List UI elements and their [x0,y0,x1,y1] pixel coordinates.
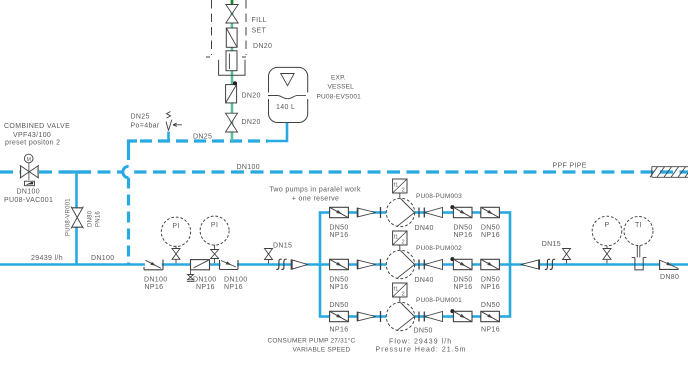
svg-text:DN25: DN25 [131,114,150,121]
svg-text:Two pumps in paralel work: Two pumps in paralel work [269,187,361,194]
svg-text:29439 l/h: 29439 l/h [31,255,63,262]
flange pump suction (PU08-PUM003) [380,207,382,218]
svg-text:DN50: DN50 [481,277,500,284]
wire DN25 vertical dashed upper [127,149,130,167]
svg-text:DN15: DN15 [542,241,561,248]
svg-text:NP16: NP16 [454,232,473,239]
wire safety valve stub [167,132,170,142]
svg-text:TI: TI [635,222,642,229]
valve DN50 NP16 discharge A (PU08-PUM002) [453,259,472,269]
svg-text:FILL: FILL [252,17,267,24]
thermowell [632,246,647,270]
svg-text:DN50: DN50 [453,225,472,232]
svg-text:NP16: NP16 [196,284,215,291]
svg-text:VESSEL: VESSEL [328,84,355,91]
svg-text:DN100: DN100 [193,277,217,284]
frequency converter box (PU08-PUM002) [393,231,407,250]
svg-text:PPF PIPE: PPF PIPE [553,163,587,170]
wire main suction/discharge line DN100 [0,263,688,266]
svg-text:DN100: DN100 [17,189,41,196]
flange pump discharge (PU08-PUM001) [418,312,420,322]
svg-text:NP16: NP16 [330,327,349,334]
svg-text:DN50: DN50 [481,225,500,232]
valve strainer drain [188,275,194,280]
svg-text:DN100: DN100 [224,277,248,284]
valve DN50 NP16 discharge A (PU08-PUM001) [453,311,472,321]
valve DN15 vent (right) [566,260,568,264]
svg-text:DN50: DN50 [329,277,348,284]
labels main line valves [144,241,679,291]
valve fill-set isolation X [226,5,238,24]
reducer cone (discharge manifold) [521,259,539,269]
reducer cone (suction manifold) [291,259,307,269]
node junction dot (PU08-PUM001) [450,309,454,313]
wire DN100 header dashed right part [134,170,688,173]
flexible connector (discharge) [545,259,555,269]
svg-text:EXP.: EXP. [331,75,346,82]
svg-text:+ one reserve: + one reserve [292,196,340,203]
valve DN50 NP16 discharge B (PU08-PUM001) [481,311,500,321]
svg-text:DN40: DN40 [415,277,434,284]
frequency converter box (PU08-PUM001) [393,283,407,302]
valve P gauge isolation [603,249,611,260]
svg-text:DN20: DN20 [253,43,272,50]
wire DN100 header solid tee piece [60,170,91,173]
pump PU08-PUM001 [386,302,414,330]
svg-text:PU08-VAC001: PU08-VAC001 [4,197,53,204]
svg-text:DN25: DN25 [193,134,212,141]
valve PU08-VAC001 combined valve body [20,165,39,178]
svg-text:preset positon 2: preset positon 2 [5,140,60,147]
svg-text:COMBINED VALVE: COMBINED VALVE [4,123,70,130]
valve DN15 X left [265,249,273,260]
valve DN20 shut-off X [226,113,238,132]
wire DN100 header dashed left part [0,170,124,173]
actuator M motor [24,154,33,180]
check valve (PU08-PUM001) [424,312,442,322]
svg-text:PU08-EVS001: PU08-EVS001 [317,94,362,101]
wire DN25 elbow corner [129,141,138,149]
valve DN50 NP16 suction (PU08-PUM002) [330,259,349,269]
fill set dashed enclosure [212,0,247,55]
svg-text:DN20: DN20 [242,119,261,126]
node pipe crossing jump [123,166,135,178]
filter fill-set [226,28,237,47]
svg-text:Flow: 29439 l/h: Flow: 29439 l/h [389,338,452,345]
svg-text:DN50: DN50 [329,302,348,309]
svg-text:PU08-PUM001: PU08-PUM001 [416,297,462,304]
valve DN50 NP16 discharge A (PU08-PUM003) [453,207,472,217]
expansion vessel PU08-EVS001 [266,67,310,122]
strainer DN100 [191,260,210,275]
labels pump header note [269,187,361,203]
svg-text:P: P [604,222,609,229]
valve DN15 vent (left) [268,260,270,264]
svg-text:NP16: NP16 [481,232,500,239]
valve PI gauge 2 isolation [211,250,219,259]
svg-text:NP16: NP16 [330,232,349,239]
valve DN100 NP16 butterfly (right of strainer) [220,260,239,270]
gauge PI stem valve [175,246,177,249]
svg-text:VPF43/100: VPF43/100 [13,132,51,139]
positioner box [25,181,35,186]
pump PU08-PUM002 [386,250,414,278]
gauge P stem valve [606,246,608,249]
svg-text:DN20: DN20 [242,93,261,100]
valve DN100 NP16 butterfly (left) [144,260,163,270]
svg-text:f1: f1 [394,286,399,292]
svg-text:M: M [26,157,31,163]
gauge PI (pump suction 1) [161,217,190,246]
svg-text:NP16: NP16 [454,284,473,291]
reducer DN80 eccentric [660,260,679,269]
svg-text:Pressure Head: 21.5m: Pressure Head: 21.5m [376,346,467,353]
wire fill line inlet (dark green) [231,0,234,8]
svg-text:SET: SET [252,28,267,35]
svg-text:PU08-PUM002: PU08-PUM002 [416,245,462,252]
node junction dot (PU08-PUM002) [450,257,454,261]
labels left block [4,123,115,262]
svg-text:140 L: 140 L [276,104,295,111]
labels expansion vessel [276,75,361,112]
water meter [219,51,245,75]
gauge P discharge [592,216,622,246]
gauge PI (pump suction 2) [200,216,229,245]
valve DN50 NP16 discharge B (PU08-PUM002) [481,259,500,269]
svg-text:DN50: DN50 [329,225,348,232]
svg-text:DN100: DN100 [144,277,168,284]
labels pump row 1 [329,193,500,239]
svg-text:f1: f1 [394,182,399,188]
svg-text:NP16: NP16 [481,327,500,334]
check valve (PU08-PUM003) [424,208,442,218]
flange pump discharge (PU08-PUM003) [418,208,420,218]
pump PU08-PUM003 [386,198,414,226]
svg-text:DN50: DN50 [414,328,433,335]
svg-text:DN15: DN15 [273,243,292,250]
svg-text:PN16: PN16 [96,211,102,227]
labels DN25 safety [131,114,213,141]
flexible connector (suction) [276,259,286,269]
flange pump suction (PU08-PUM001) [380,311,382,322]
valve DN50 NP16 suction (PU08-PUM001) [330,311,349,321]
svg-text:2: 2 [402,240,405,246]
flange pump discharge (PU08-PUM002) [418,260,420,270]
svg-text:DN80: DN80 [660,274,679,281]
svg-text:VARIABLE SPEED: VARIABLE SPEED [293,346,351,353]
wire DN25 dashed line [140,139,268,142]
labels fill set [242,17,273,126]
reducer cone suction (PU08-PUM002) [357,260,375,270]
safety valve DN25 Po=4bar [166,112,182,131]
svg-text:DN100: DN100 [91,255,115,262]
svg-text:NP16: NP16 [145,284,164,291]
gauge TI thermometer [624,217,653,246]
svg-text:DN50: DN50 [481,302,500,309]
svg-text:DN100: DN100 [237,164,261,171]
check valve (PU08-PUM002) [424,260,442,270]
svg-text:DN80: DN80 [88,210,94,227]
svg-text:Po=4bar: Po=4bar [131,123,160,130]
svg-text:NP16: NP16 [481,284,500,291]
reducer cone suction (PU08-PUM001) [357,312,375,322]
svg-text:2: 2 [402,292,405,298]
frequency converter box (PU08-PUM003) [393,179,407,198]
labels VR001 rotated [66,198,102,236]
wire fill water line [231,0,234,141]
svg-text:DN40: DN40 [415,225,434,232]
svg-text:CONSUMER PUMP 27/31°C: CONSUMER PUMP 27/31°C [268,336,356,344]
wire pump manifold loop (collectors and rows 1,3) [320,213,510,317]
labels bottom [268,336,467,353]
valve DN15 X right [563,249,571,260]
wire vertical drop VR001 branch [75,172,78,265]
svg-text:PI: PI [172,223,179,230]
svg-text:f1: f1 [394,234,399,240]
reducer cone suction (PU08-PUM003) [357,208,375,218]
valve PU08-VR001 [71,207,83,229]
svg-text:PU08-VR001: PU08-VR001 [66,198,72,236]
labels pump row 3 [329,297,500,335]
flange pump suction (PU08-PUM002) [380,259,382,270]
valve DN50 NP16 suction (PU08-PUM003) [330,207,349,217]
valve PI gauge isolation [172,249,180,260]
labels pump row 2 [329,245,500,291]
svg-text:PU08-PUM003: PU08-PUM003 [416,193,462,200]
wall sleeve (hatched) [650,167,688,178]
svg-text:DN50: DN50 [453,277,472,284]
svg-text:NP16: NP16 [330,284,349,291]
wire expansion vessel connection [268,122,287,142]
wire DN25 vertical dashed lower [127,178,130,265]
gauge PI 2 stem valve [214,245,216,250]
valve DN50 NP16 discharge B (PU08-PUM003) [481,207,500,217]
node junction dot (PU08-PUM003) [450,205,454,209]
svg-text:2: 2 [402,188,405,194]
svg-text:PI: PI [211,222,218,229]
svg-text:NP16: NP16 [224,284,243,291]
check valve DN20 (with actuator dot) [226,81,237,103]
